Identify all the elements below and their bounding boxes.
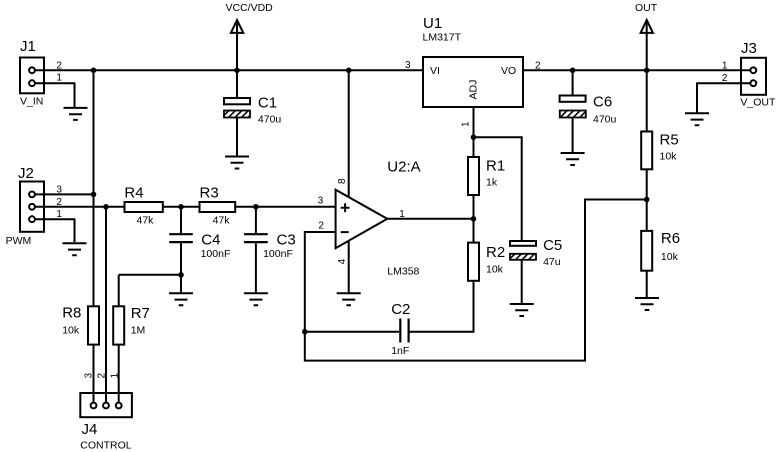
svg-text:10k: 10k — [660, 151, 678, 163]
svg-text:8: 8 — [337, 178, 348, 184]
resistor R3 — [200, 202, 236, 212]
node C6 — [570, 68, 576, 74]
resistor R8 — [88, 306, 99, 344]
capacitor C2 — [400, 319, 408, 343]
wire R4 right lead — [163, 206, 200, 208]
svg-text:PWM: PWM — [6, 235, 32, 247]
svg-text:10k: 10k — [62, 325, 80, 337]
svg-text:J1: J1 — [20, 38, 36, 55]
regulator U1 — [423, 57, 523, 107]
connector J1 — [20, 58, 44, 94]
wire R7 to C4 ground node — [119, 274, 181, 276]
svg-text:VI: VI — [430, 65, 440, 77]
svg-text:2: 2 — [722, 73, 728, 84]
wire top rail right — [523, 69, 753, 71]
wire R3 right to opamp + — [235, 206, 335, 208]
ground J2 — [63, 243, 87, 255]
svg-text:OUT: OUT — [635, 2, 658, 14]
svg-text:J2: J2 — [18, 165, 34, 182]
svg-text:47u: 47u — [543, 256, 561, 268]
ground C3 — [244, 293, 268, 305]
ground R6 — [635, 298, 659, 310]
svg-text:100nF: 100nF — [201, 248, 231, 260]
svg-text:1: 1 — [399, 209, 405, 220]
svg-text:R1: R1 — [486, 157, 505, 174]
wire feedback path — [305, 200, 647, 361]
svg-text:R4: R4 — [124, 184, 143, 201]
node VCC-C1 — [234, 68, 240, 74]
wire left vertical rail to R8 — [93, 70, 95, 406]
svg-text:1nF: 1nF — [391, 345, 409, 357]
svg-text:2: 2 — [56, 197, 62, 208]
svg-text:3: 3 — [84, 373, 95, 379]
ground C6 — [561, 153, 585, 165]
wire C1 leads — [236, 70, 238, 156]
wire top rail left — [32, 69, 423, 71]
svg-text:U2:A: U2:A — [387, 158, 420, 175]
svg-text:470u: 470u — [258, 113, 282, 125]
wire J3 pin2 to ground — [697, 83, 753, 112]
svg-text:R5: R5 — [660, 131, 679, 148]
ground C4 — [169, 293, 193, 305]
svg-text:1k: 1k — [486, 177, 498, 189]
wire J1 pin1 to ground — [32, 83, 75, 107]
wire C5 branch — [474, 137, 522, 303]
svg-text:2: 2 — [97, 373, 108, 379]
svg-text:C4: C4 — [201, 232, 220, 249]
svg-text:C1: C1 — [258, 94, 277, 111]
svg-text:2: 2 — [535, 61, 541, 72]
svg-text:J4: J4 — [82, 421, 98, 438]
wire opamp pin4 — [348, 241, 350, 293]
svg-text:ADJ: ADJ — [468, 80, 480, 100]
svg-text:3: 3 — [405, 60, 411, 71]
node opamp out-R1-R2 — [471, 216, 477, 222]
node R7-C4gnd — [178, 272, 184, 278]
resistor R1 — [468, 157, 479, 195]
wire VCC stem — [236, 21, 238, 70]
node ADJ-R1-C5 — [471, 134, 477, 140]
svg-text:R7: R7 — [131, 305, 150, 322]
ground opamp — [337, 293, 361, 305]
wire R1 to R2 node — [473, 195, 475, 243]
svg-text:47k: 47k — [137, 214, 155, 226]
node R4-R3-C4 — [178, 204, 184, 210]
svg-text:R8: R8 — [62, 304, 81, 321]
svg-text:V_IN: V_IN — [20, 96, 43, 108]
connector J4 — [80, 393, 132, 417]
wire R6 leads — [646, 200, 648, 298]
capacitor C3 — [244, 234, 268, 242]
svg-text:R2: R2 — [486, 244, 505, 261]
capacitor C5 — [510, 241, 536, 246]
node opamp pin8 — [346, 68, 352, 74]
connector J2 — [20, 182, 44, 232]
svg-text:VCC/VDD: VCC/VDD — [226, 2, 274, 14]
wire opamp pin8 — [348, 70, 350, 197]
ground J1 — [64, 108, 88, 120]
node R3-opamp-C3 — [253, 204, 259, 210]
svg-text:VO: VO — [501, 65, 516, 77]
node rail-J2 branch — [91, 68, 97, 74]
svg-text:1: 1 — [56, 209, 62, 220]
svg-text:U1: U1 — [423, 15, 442, 32]
svg-text:1: 1 — [722, 61, 728, 72]
svg-text:C6: C6 — [593, 93, 612, 110]
svg-text:J3: J3 — [741, 40, 757, 57]
wire C4 leads — [180, 207, 182, 293]
node C2-feedback — [302, 329, 308, 335]
resistor R5 — [641, 132, 652, 170]
node R5-R6-feedback — [644, 197, 650, 203]
svg-text:2: 2 — [56, 60, 62, 71]
node J2 pin2 — [103, 204, 109, 210]
wire U1 ADJ — [473, 107, 475, 157]
wire J2 pin3 — [32, 193, 94, 195]
svg-text:10k: 10k — [661, 251, 679, 263]
svg-text:470u: 470u — [593, 114, 617, 126]
svg-text:1: 1 — [56, 73, 62, 84]
svg-text:1: 1 — [461, 121, 472, 127]
wire C6 leads — [572, 70, 574, 153]
connector J3 — [741, 58, 766, 95]
resistor R7 — [113, 306, 124, 344]
svg-text:1M: 1M — [131, 325, 146, 337]
node OUT-R5 — [644, 68, 650, 74]
wire C3 leads — [255, 207, 257, 293]
svg-text:1: 1 — [110, 373, 121, 379]
svg-text:C2: C2 — [391, 301, 410, 318]
svg-text:4: 4 — [337, 258, 348, 264]
op-amp U2:A — [336, 190, 388, 249]
svg-text:R3: R3 — [200, 184, 219, 201]
ground C1 — [225, 157, 249, 169]
capacitor C4 — [169, 234, 193, 242]
svg-text:C3: C3 — [277, 232, 296, 249]
wire J2 pin2 vertical to J4 — [105, 207, 107, 406]
resistor R6 — [641, 231, 652, 271]
svg-text:R6: R6 — [661, 230, 680, 247]
wire R5 leads — [646, 70, 648, 200]
svg-text:100nF: 100nF — [263, 248, 293, 260]
svg-text:10k: 10k — [486, 263, 504, 275]
capacitor C6 — [560, 96, 586, 102]
svg-text:3: 3 — [318, 196, 324, 207]
power symbol VCC/VDD — [231, 20, 243, 33]
ground J3 — [685, 113, 709, 125]
svg-text:CONTROL: CONTROL — [80, 439, 131, 451]
node J2 pin3 — [91, 192, 97, 198]
svg-text:LM317T: LM317T — [423, 31, 462, 43]
svg-text:3: 3 — [56, 184, 62, 195]
capacitor C1 — [224, 98, 250, 104]
resistor R2 — [468, 243, 479, 281]
wire C2 left lead — [305, 331, 399, 333]
svg-text:C5: C5 — [543, 237, 562, 254]
svg-text:47k: 47k — [213, 214, 231, 226]
svg-text:LM358: LM358 — [387, 265, 419, 277]
power symbol OUT — [641, 20, 653, 33]
wire R7 leads — [118, 275, 120, 406]
wire OUT stem — [646, 21, 648, 70]
wire opamp output — [387, 218, 473, 220]
wire R2 bottom to C2 — [409, 281, 474, 332]
wire J2 pin1 to ground — [32, 219, 75, 242]
svg-text:V_OUT: V_OUT — [740, 96, 776, 108]
resistor R4 — [125, 202, 163, 212]
svg-text:2: 2 — [318, 220, 324, 231]
ground C5 — [510, 304, 534, 316]
wire J2 pin2 — [32, 206, 125, 208]
